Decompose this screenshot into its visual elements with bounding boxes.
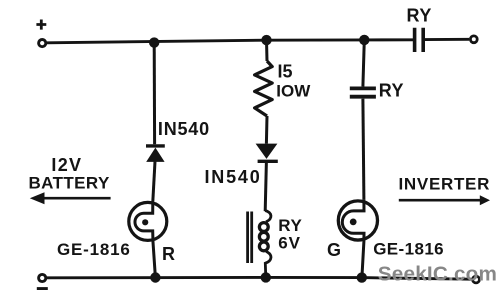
svg-text:SeekIC.com: SeekIC.com [378,263,497,286]
svg-text:GE-1816: GE-1816 [57,240,131,259]
svg-text:RY: RY [407,5,432,25]
svg-text:GE-1816: GE-1816 [373,239,444,258]
svg-text:IN540: IN540 [205,167,262,187]
svg-text:IN540: IN540 [158,119,210,139]
svg-text:INVERTER: INVERTER [399,174,491,193]
svg-text:I5: I5 [278,62,293,82]
svg-text:I2V: I2V [51,155,82,175]
svg-text:RY: RY [379,81,404,101]
svg-text:RY: RY [278,216,302,235]
svg-text:R: R [162,244,175,264]
svg-text:BATTERY: BATTERY [29,173,110,192]
svg-text:6V: 6V [278,234,301,253]
svg-text:IOW: IOW [276,81,311,100]
svg-text:G: G [327,240,341,260]
